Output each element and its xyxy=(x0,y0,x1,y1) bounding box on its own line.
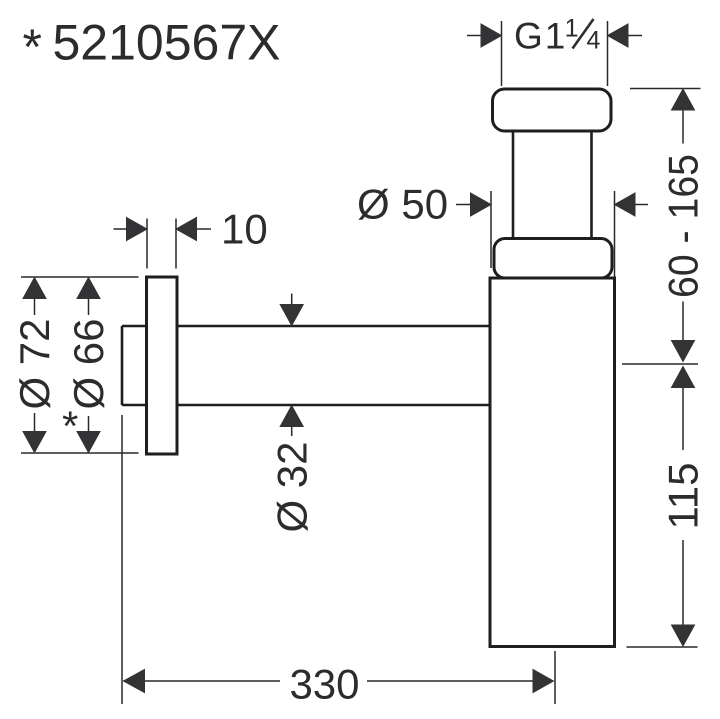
svg-text:*: * xyxy=(23,19,42,75)
svg-text:330: 330 xyxy=(289,661,359,708)
svg-text:Ø 66: Ø 66 xyxy=(65,318,112,409)
svg-text:5210567X: 5210567X xyxy=(53,15,281,71)
svg-text:60 - 165: 60 - 165 xyxy=(660,154,707,298)
svg-text:Ø 32: Ø 32 xyxy=(269,441,316,532)
svg-text:10: 10 xyxy=(221,206,268,253)
svg-text:*: * xyxy=(62,403,78,450)
svg-text:G1: G1 xyxy=(514,16,567,57)
svg-text:Ø 72: Ø 72 xyxy=(11,318,58,409)
svg-text:115: 115 xyxy=(660,463,707,530)
svg-text:4: 4 xyxy=(587,27,601,55)
svg-text:1: 1 xyxy=(565,15,579,43)
svg-text:Ø 50: Ø 50 xyxy=(357,181,448,228)
